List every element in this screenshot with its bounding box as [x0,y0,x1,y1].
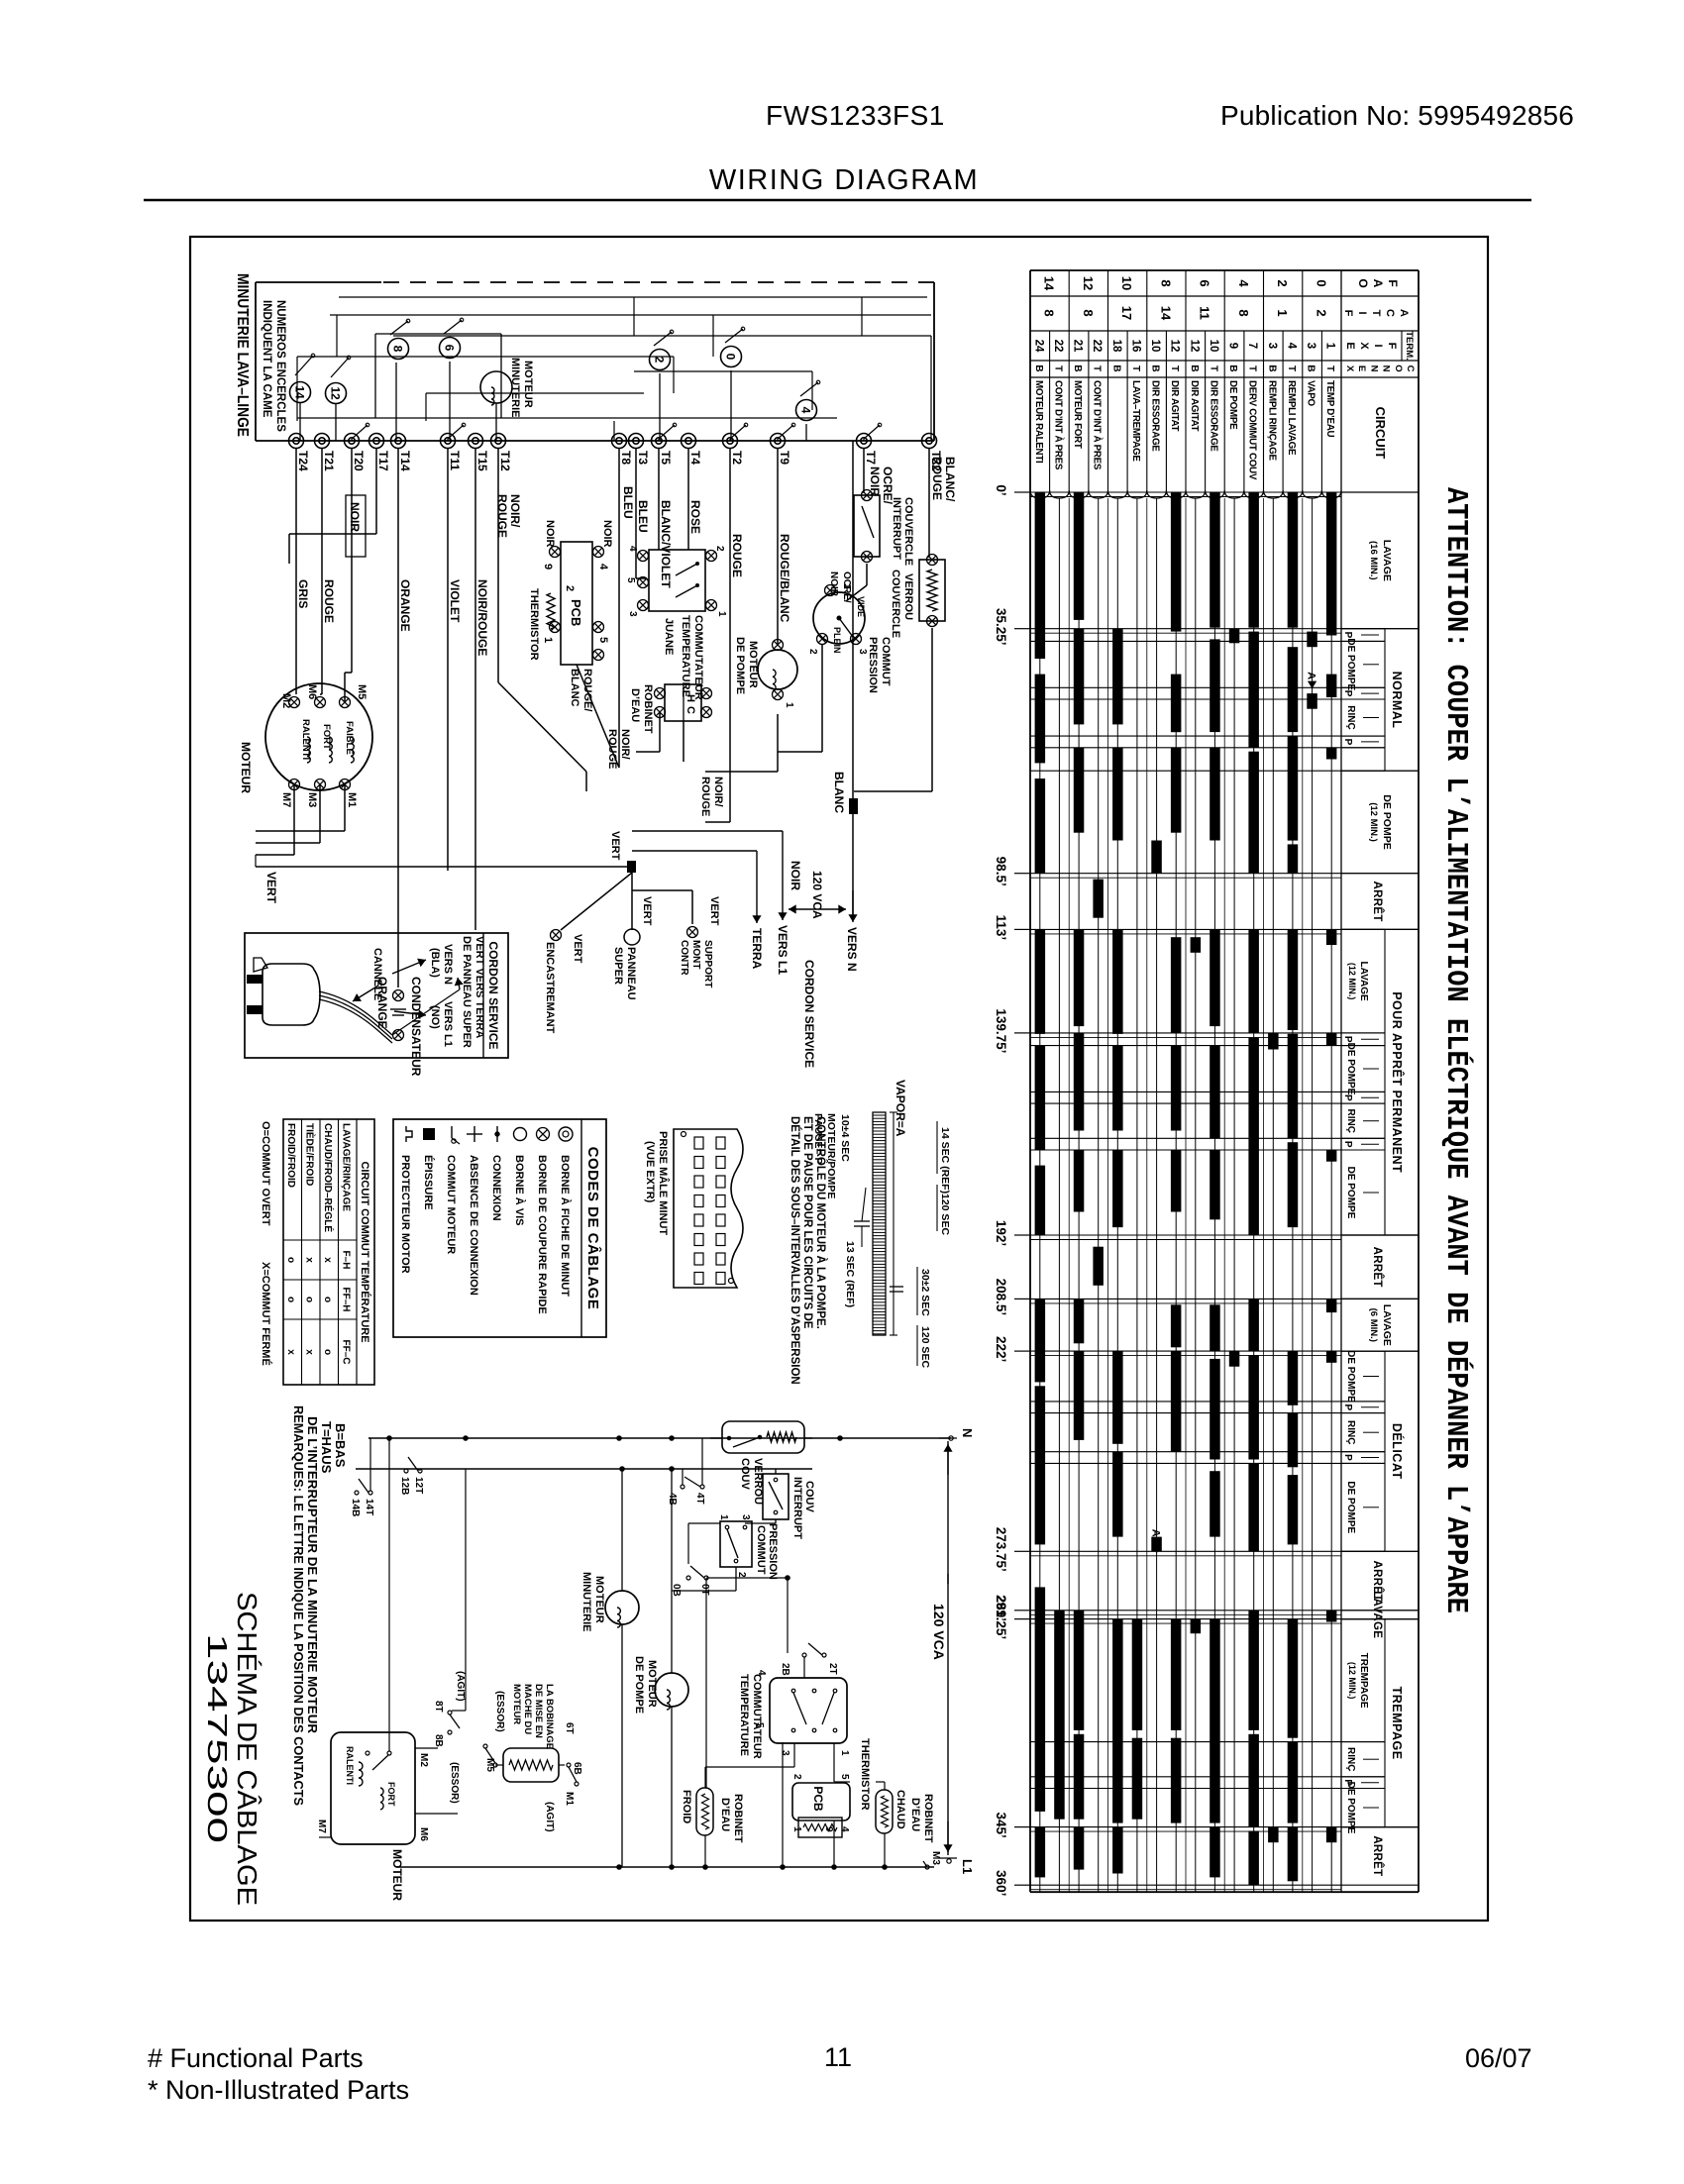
svg-text:DE POMPE: DE POMPE [1345,1167,1356,1219]
svg-text:5: 5 [625,577,636,583]
svg-text:DE POMPE: DE POMPE [734,637,746,694]
svg-text:10: 10 [1208,340,1219,353]
svg-text:CIRCUIT COMMUT TEMPÉRATURE: CIRCUIT COMMUT TEMPÉRATURE [359,1161,371,1342]
svg-text:T4: T4 [688,451,702,465]
svg-text:CONDENSATEUR: CONDENSATEUR [409,977,423,1077]
svg-text:2: 2 [791,1774,802,1780]
svg-text:24: 24 [1032,340,1044,353]
svg-text:(AGIT): (AGIT) [544,1802,555,1832]
svg-text:ROUGE/BLANC: ROUGE/BLANC [778,534,791,623]
svg-text:SCHÉMA DE CÂBLAGE: SCHÉMA DE CÂBLAGE [232,1592,263,1906]
svg-text:BORNE À FICHE DE MINUT: BORNE À FICHE DE MINUT [559,1155,572,1297]
svg-text:(BLA): (BLA) [429,948,441,978]
svg-text:2: 2 [807,649,818,655]
svg-text:192’: 192’ [994,1220,1008,1246]
svg-text:M2: M2 [280,693,292,708]
svg-text:3: 3 [1305,343,1316,349]
svg-text:I: I [1372,344,1384,347]
svg-text:14: 14 [1042,276,1057,291]
svg-text:DÉTAIL DES SOUS–INTERVALLES D’: DÉTAIL DES SOUS–INTERVALLES D’ASPERSION [789,1116,801,1385]
svg-text:B: B [1227,364,1238,371]
svg-text:0T: 0T [699,1584,710,1596]
svg-text:DE POMPE: DE POMPE [633,1656,645,1714]
svg-text:o: o [304,1297,315,1302]
svg-text:3: 3 [857,649,868,655]
svg-text:T: T [1286,365,1297,371]
svg-text:CORDON SERVICE: CORDON SERVICE [486,941,500,1049]
svg-text:BLEU: BLEU [636,500,650,533]
svg-text:BLANC: BLANC [832,772,846,813]
svg-text:ARRÊT: ARRÊT [1371,882,1384,922]
svg-text:B: B [1033,364,1044,371]
svg-text:DIR ESSORAGE: DIR ESSORAGE [1150,380,1161,452]
svg-text:RINÇ: RINÇ [1345,1747,1356,1771]
svg-text:291.25’: 291.25’ [994,1595,1008,1639]
svg-text:X=COMMUT FERMÉ: X=COMMUT FERMÉ [260,1262,272,1366]
svg-text:MOTEUR: MOTEUR [593,1576,605,1623]
svg-text:TIÈDE/FROID: TIÈDE/FROID [304,1123,317,1186]
svg-text:MINUTERIE LAVA–LINGE: MINUTERIE LAVA–LINGE [234,273,251,437]
svg-text:P: P [1342,1454,1353,1461]
svg-text:B: B [1110,364,1121,371]
svg-text:A: A [1398,309,1410,317]
svg-text:222’: 222’ [994,1336,1008,1362]
svg-text:21: 21 [1072,340,1084,353]
svg-text:Publication No: 5995492856: Publication No: 5995492856 [1220,100,1574,131]
svg-text:T: T [1092,365,1103,371]
svg-text:VERS L1: VERS L1 [442,1001,454,1047]
svg-text:T9: T9 [778,451,791,465]
svg-text:M1: M1 [346,792,358,807]
svg-text:VIOLET: VIOLET [448,579,462,623]
svg-text:ROUGE: ROUGE [606,729,618,769]
svg-text:273.75’: 273.75’ [994,1527,1008,1572]
svg-text:I: I [1356,311,1368,314]
svg-text:D’EAU: D’EAU [909,1798,921,1831]
svg-text:17: 17 [1119,306,1134,320]
svg-text:120 VCA: 120 VCA [931,1604,947,1660]
svg-text:L1: L1 [960,1859,975,1874]
svg-text:VERT VERS TERRA: VERT VERS TERRA [474,936,485,1038]
svg-text:ROBINET: ROBINET [732,1794,744,1843]
svg-text:3: 3 [1266,343,1278,349]
svg-text:T17: T17 [376,451,390,471]
svg-text:T: T [1208,365,1218,371]
svg-text:2: 2 [1314,309,1328,316]
svg-text:T11: T11 [448,451,462,470]
svg-text:DERV COMMUT COUV: DERV COMMUT COUV [1247,380,1258,480]
svg-text:INDIQUENT LA CAME: INDIQUENT LA CAME [261,300,272,418]
svg-text:M6: M6 [418,1827,429,1841]
svg-text:TERRA: TERRA [750,928,764,970]
svg-text:6: 6 [1198,279,1212,286]
svg-text:8: 8 [1081,309,1096,316]
svg-text:NORMAL: NORMAL [1390,672,1404,729]
svg-text:2: 2 [653,357,667,364]
svg-text:RINÇ: RINÇ [1345,1108,1356,1132]
svg-text:ROBINET: ROBINET [642,684,654,734]
svg-text:6: 6 [443,345,457,352]
svg-text:M5: M5 [356,684,368,699]
svg-text:2B: 2B [780,1663,790,1676]
svg-text:O=COMMUT OVERT: O=COMMUT OVERT [260,1121,271,1226]
svg-text:H: H [684,694,696,702]
svg-text:0B: 0B [671,1584,682,1597]
svg-text:VERS L1: VERS L1 [776,925,789,975]
svg-text:2: 2 [714,546,725,552]
svg-text:0’: 0’ [994,484,1008,495]
svg-text:P: P [1342,690,1353,697]
svg-text:C: C [684,706,696,714]
svg-text:ROUGE: ROUGE [699,777,711,816]
svg-text:VAPO: VAPO [1306,380,1316,407]
svg-text:MOTEUR FORT: MOTEUR FORT [1072,380,1083,449]
svg-text:M7: M7 [280,792,292,807]
svg-text:ROUGE/: ROUGE/ [581,669,593,711]
svg-text:DE POMPE: DE POMPE [1345,1481,1356,1533]
svg-text:CONTR: CONTR [679,940,689,976]
svg-text:F: F [1386,343,1398,350]
svg-text:11: 11 [1198,306,1212,320]
svg-text:2: 2 [1275,279,1290,286]
svg-text:CANNELÉ: CANNELÉ [371,948,384,1000]
svg-text:PROTECTEUR MOTOR: PROTECTEUR MOTOR [399,1155,411,1274]
svg-text:FORT: FORT [386,1782,396,1807]
svg-text:10±4 SEC: 10±4 SEC [839,1114,851,1162]
svg-text:VAPOR=A: VAPOR=A [894,1080,907,1137]
svg-text:F: F [1342,310,1354,317]
svg-text:9: 9 [542,564,554,570]
svg-text:5: 5 [839,1774,850,1780]
svg-text:RINÇ: RINÇ [1345,1420,1356,1444]
svg-text:ENCASTREMANT: ENCASTREMANT [544,942,556,1034]
svg-text:PRESSION: PRESSION [767,1523,779,1580]
svg-text:8B: 8B [433,1734,444,1747]
svg-text:P: P [1342,1141,1353,1148]
svg-text:T15: T15 [475,451,489,471]
svg-text:T3: T3 [636,451,650,465]
svg-text:# Functional Parts: # Functional Parts [148,2043,364,2073]
svg-text:1: 1 [1324,343,1336,350]
svg-text:2: 2 [736,1572,747,1578]
svg-text:T: T [1370,310,1382,317]
svg-text:VERT: VERT [609,831,621,861]
svg-text:DIR AGITAT: DIR AGITAT [1169,380,1180,432]
svg-text:INTERRUPT: INTERRUPT [891,497,902,560]
svg-text:30±2 SEC: 30±2 SEC [919,1269,931,1316]
svg-text:NOIR: NOIR [544,520,556,548]
svg-text:NOIR: NOIR [348,502,362,532]
svg-text:M3: M3 [930,1851,941,1865]
svg-text:35.25’: 35.25’ [994,608,1008,646]
svg-text:NOIR/ROUGE: NOIR/ROUGE [475,579,489,656]
svg-text:COMMUT MOTEUR: COMMUT MOTEUR [445,1155,457,1254]
svg-text:M1: M1 [564,1792,575,1806]
svg-text:3: 3 [627,611,638,617]
svg-text:M3: M3 [306,792,318,807]
svg-text:DE POMPE: DE POMPE [1345,1782,1356,1834]
svg-text:DE POMPE: DE POMPE [1345,1043,1356,1095]
svg-text:8: 8 [391,346,405,353]
svg-text:MOTEUR RALENTI: MOTEUR RALENTI [1033,380,1044,464]
svg-text:x: x [304,1349,315,1355]
svg-text:4: 4 [1285,343,1297,350]
svg-text:COMMUTATEUR: COMMUTATEUR [692,615,704,700]
svg-text:POUR APPRÊT PERMANENT: POUR APPRÊT PERMANENT [1390,991,1405,1173]
svg-text:T24: T24 [296,451,310,471]
svg-text:FF–C: FF–C [341,1340,352,1365]
svg-text:ROBINET: ROBINET [922,1794,934,1843]
svg-text:6B: 6B [572,1762,582,1775]
svg-text:ÉPISSURE: ÉPISSURE [422,1155,435,1210]
svg-text:CODES DE CÂBLAGE: CODES DE CÂBLAGE [584,1147,602,1310]
svg-text:1: 1 [839,1750,850,1756]
svg-text:ROUGE: ROUGE [322,579,336,623]
svg-text:VIDE: VIDE [856,596,866,617]
svg-text:NOIR: NOIR [828,572,839,597]
svg-text:PRESSION: PRESSION [867,637,879,693]
svg-text:VERT: VERT [641,896,653,926]
svg-text:T: T [1324,365,1335,371]
svg-text:o: o [285,1257,296,1263]
svg-text:DE POMPE: DE POMPE [1381,794,1393,849]
svg-text:139.75’: 139.75’ [994,1008,1008,1053]
svg-text:MOTEUR: MOTEUR [522,361,534,408]
svg-text:12: 12 [1081,276,1096,290]
svg-text:VERT: VERT [572,934,583,964]
svg-text:7: 7 [1246,343,1258,349]
svg-text:VERT: VERT [708,896,720,926]
svg-text:VERROU: VERROU [902,573,914,620]
svg-text:2: 2 [564,585,576,591]
svg-text:1: 1 [1275,309,1290,316]
svg-text:NOIR: NOIR [789,861,802,890]
svg-text:A: A [1306,672,1317,679]
svg-text:TEMPERATURE: TEMPERATURE [738,1674,750,1756]
svg-text:SUPPORT: SUPPORT [702,940,713,988]
svg-text:DE POMPE: DE POMPE [1345,638,1356,690]
svg-text:T: T [1130,365,1141,371]
svg-text:(ESSOR): (ESSOR) [449,1762,460,1804]
svg-text:MOTEUR: MOTEUR [646,1660,658,1708]
svg-text:COMMUT: COMMUT [880,637,892,686]
svg-text:T8: T8 [619,451,633,465]
svg-text:5: 5 [597,637,609,643]
svg-text:* Non-Illustrated Parts: * Non-Illustrated Parts [148,2075,409,2105]
svg-text:16: 16 [1129,340,1141,353]
svg-text:0: 0 [724,354,738,361]
svg-text:COUV: COUV [803,1481,815,1512]
svg-text:E: E [1344,342,1356,349]
svg-text:8T: 8T [433,1701,444,1713]
svg-text:14T: 14T [364,1499,374,1515]
svg-text:PCB: PCB [811,1786,825,1812]
svg-text:OCRE/: OCRE/ [841,572,852,603]
svg-text:CONNEXION: CONNEXION [490,1155,502,1221]
svg-text:98.5’: 98.5’ [994,857,1008,886]
svg-text:NOIR: NOIR [601,520,613,548]
svg-text:1: 1 [718,1514,729,1520]
svg-text:MOTEUR/POMPE: MOTEUR/POMPE [825,1113,837,1198]
svg-text:DE L’INTERRUPTEUR DE LA MINUTE: DE L’INTERRUPTEUR DE LA MINUTERIE MOTEUR [305,1416,320,1734]
svg-text:6T: 6T [564,1722,575,1734]
svg-text:13 SEC (REF): 13 SEC (REF) [844,1241,856,1307]
svg-text:NOIR/: NOIR/ [619,729,631,760]
svg-text:(12 MIN.): (12 MIN.) [1347,1662,1357,1700]
svg-text:T: T [1052,365,1063,371]
svg-text:FROID: FROID [681,1790,692,1823]
svg-text:12: 12 [329,386,343,400]
svg-text:NOIR/: NOIR/ [712,777,724,807]
svg-text:LAVAGE: LAVAGE [1381,1304,1393,1346]
svg-text:MOTEUR: MOTEUR [747,641,759,688]
svg-text:COMMUT: COMMUT [755,1525,767,1575]
svg-text:1: 1 [791,1826,802,1832]
svg-text:T5: T5 [659,451,673,465]
svg-text:N: N [1368,365,1379,372]
svg-text:113’: 113’ [994,915,1008,941]
svg-text:CHAUD: CHAUD [895,1790,906,1829]
svg-text:WIRING DIAGRAM: WIRING DIAGRAM [709,164,979,196]
svg-text:TREMPAGE: TREMPAGE [1358,1653,1369,1709]
svg-text:10: 10 [1149,340,1161,353]
svg-text:LAVA–TREMPAGE: LAVA–TREMPAGE [1130,380,1141,462]
svg-text:PAUSE= P: PAUSE= P [812,1113,824,1164]
svg-text:ABSENCE DE CONNEXION: ABSENCE DE CONNEXION [468,1155,479,1296]
svg-text:(VUE EXTR): (VUE EXTR) [644,1141,656,1203]
svg-text:P: P [1342,1404,1353,1410]
svg-text:LAVAGE/RINÇAGE: LAVAGE/RINÇAGE [341,1123,352,1211]
svg-text:VERS N: VERS N [442,944,454,985]
svg-text:12: 12 [1169,340,1181,353]
svg-text:120 SEC: 120 SEC [939,1194,951,1235]
svg-text:PANNEAU: PANNEAU [625,947,637,1000]
svg-text:345’: 345’ [994,1812,1008,1837]
svg-text:18: 18 [1110,340,1122,353]
svg-text:ROUGE: ROUGE [495,494,509,538]
svg-text:120 SEC: 120 SEC [919,1326,931,1368]
svg-text:THERMISTOR: THERMISTOR [859,1738,871,1811]
svg-text:22: 22 [1052,340,1064,353]
svg-text:REMPLI LAVAGE: REMPLI LAVAGE [1286,380,1297,456]
svg-text:CORDON SERVICE: CORDON SERVICE [802,960,816,1068]
svg-text:TREMPAGE: TREMPAGE [1390,1687,1404,1760]
svg-text:x: x [304,1257,315,1263]
svg-text:N: N [1381,365,1392,372]
svg-text:INTERRUPT: INTERRUPT [791,1477,803,1539]
svg-text:LAVAGE: LAVAGE [1381,540,1393,581]
svg-text:1: 1 [784,702,794,708]
svg-text:D’EAU: D’EAU [719,1798,731,1831]
svg-text:LAVAGE: LAVAGE [1358,962,1369,1002]
svg-text:11: 11 [824,2042,852,2072]
svg-text:22: 22 [1091,340,1103,353]
svg-text:TEMP D’EAU: TEMP D’EAU [1324,380,1335,437]
svg-text:o: o [285,1297,296,1302]
svg-text:1: 1 [542,637,554,643]
svg-text:2T: 2T [827,1663,838,1675]
svg-text:BORNE DE COUPURE RAPIDE: BORNE DE COUPURE RAPIDE [536,1155,548,1314]
svg-text:06/07: 06/07 [1465,2043,1532,2073]
svg-text:NUMEROS ENCERCLES: NUMEROS ENCERCLES [274,300,286,432]
svg-text:(16 MIN.): (16 MIN.) [1368,541,1379,580]
svg-text:PRISE MÂLE MINUT: PRISE MÂLE MINUT [657,1131,670,1235]
svg-text:4: 4 [627,546,638,552]
svg-text:3: 3 [740,1514,751,1520]
svg-text:BLANC/VIOLET: BLANC/VIOLET [659,500,673,588]
svg-text:X: X [1358,342,1370,350]
svg-text:MOTEUR: MOTEUR [390,1849,404,1901]
svg-text:O: O [1356,278,1370,287]
svg-text:N: N [960,1428,975,1437]
svg-text:B=BAS: B=BAS [333,1423,348,1468]
svg-text:1: 1 [716,611,727,617]
svg-text:DÉLICAT: DÉLICAT [1390,1423,1405,1480]
svg-text:REMARQUES: LE LETTRE INDIQUE: REMARQUES: LE LETTRE INDIQUE LA POSITION… [291,1405,306,1806]
svg-text:M7: M7 [316,1820,327,1833]
svg-text:B: B [1189,364,1200,371]
svg-text:C: C [1405,365,1416,372]
svg-text:T: T [1169,365,1180,371]
svg-text:(ESSOR): (ESSOR) [494,1691,505,1732]
svg-text:4: 4 [1236,279,1251,287]
svg-text:JUANE: JUANE [663,618,675,655]
svg-text:B: B [1072,364,1083,371]
svg-text:FWS1233FS1: FWS1233FS1 [766,100,945,131]
svg-text:9: 9 [1227,343,1239,349]
svg-text:T=HAUS: T=HAUS [319,1421,334,1474]
svg-text:MOTEUR: MOTEUR [511,1684,522,1724]
svg-text:ROSE: ROSE [688,500,702,534]
svg-text:E: E [1356,365,1367,371]
svg-text:MONT: MONT [690,940,701,969]
svg-text:120 VCA: 120 VCA [810,871,824,919]
svg-text:F: F [1386,279,1400,286]
svg-text:THERMISTOR: THERMISTOR [528,588,540,661]
svg-text:FF–H: FF–H [341,1288,352,1312]
svg-text:12T: 12T [413,1477,424,1494]
svg-text:CIRCUIT: CIRCUIT [1373,407,1388,460]
svg-text:14: 14 [1158,306,1173,321]
svg-text:CONT D’INT À PRES: CONT D’INT À PRES [1092,380,1104,470]
svg-text:14 SEC (REF): 14 SEC (REF) [939,1127,951,1194]
svg-text:CHAUD/FROID–RÉGLÉ: CHAUD/FROID–RÉGLÉ [322,1123,335,1232]
svg-text:T2: T2 [730,451,744,465]
svg-text:B: B [1150,364,1161,371]
svg-text:GRIS: GRIS [296,579,310,608]
svg-text:P: P [1342,739,1353,746]
svg-text:o: o [322,1297,333,1302]
svg-text:REMPLI RINÇAGE: REMPLI RINÇAGE [1266,380,1277,461]
svg-text:CONT D’INT À PRES: CONT D’INT À PRES [1052,380,1064,470]
svg-text:ARRÊT: ARRÊT [1371,1247,1384,1288]
svg-text:208.5’: 208.5’ [994,1279,1008,1316]
svg-text:PLEIN: PLEIN [832,627,842,654]
svg-text:FROID/FROID: FROID/FROID [285,1123,296,1188]
svg-text:o: o [322,1349,333,1355]
svg-text:SUPER: SUPER [612,947,624,985]
svg-text:DIR ESSORAGE: DIR ESSORAGE [1208,380,1218,452]
svg-text:4T: 4T [694,1493,705,1505]
svg-text:LA BOBINAGE: LA BOBINAGE [544,1684,555,1749]
svg-text:T21: T21 [322,451,336,471]
svg-text:MACHE DU: MACHE DU [522,1684,533,1734]
svg-text:(6 MIN.): (6 MIN.) [1368,1308,1379,1342]
svg-text:10: 10 [1119,276,1134,290]
svg-text:DE MISE EN: DE MISE EN [533,1684,544,1738]
svg-text:B: B [1266,364,1277,371]
svg-text:NOIR/: NOIR/ [508,494,522,528]
